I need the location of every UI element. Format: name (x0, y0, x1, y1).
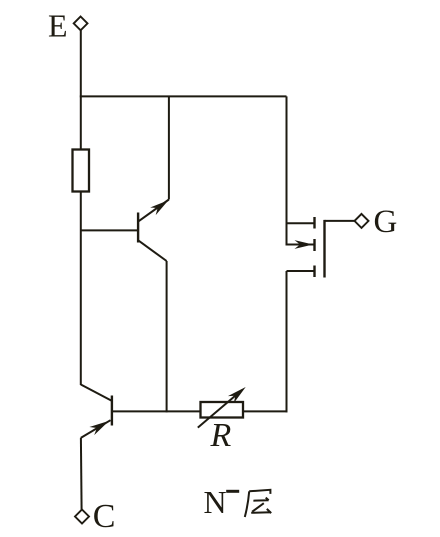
transistor Q2 base bar (111, 396, 113, 426)
transistor Q2 collector diagonal (81, 385, 112, 401)
MOSFET gate bar (323, 220, 325, 278)
svg-text:G: G (374, 204, 398, 240)
wire Q1 emitter vertical (166, 261, 168, 412)
MOSFET drain stub (287, 222, 315, 224)
resistor (left, vertical body) (73, 150, 90, 192)
svg-text:E: E (48, 7, 68, 43)
MOSFET source stub (287, 270, 315, 272)
MOSFET body arrow (295, 240, 314, 249)
transistor Q1 base bar (137, 213, 139, 243)
wire E top vertical (80, 30, 82, 149)
svg-text:C: C (93, 498, 116, 535)
MOSFET body stub (287, 244, 315, 246)
transistor Q1 base wire (81, 229, 138, 231)
wire middle branch vertical (top rail to Q1 collector) (168, 96, 170, 199)
wire bottom rail (112, 410, 288, 412)
MOSFET gate lead (325, 220, 355, 222)
transistor Q2 emitter diagonal (81, 420, 111, 438)
terminal C diamond (75, 510, 89, 524)
transistor Q2 arrow (89, 421, 109, 435)
MOSFET channel segment (bottom) (313, 266, 315, 278)
MOSFET channel segment (middle) (313, 239, 315, 251)
resistor R arrowhead (228, 387, 246, 403)
resistor R arrow line (198, 390, 242, 428)
label superscript minus (226, 490, 239, 493)
wire left vertical (resistor to lower transistor) (80, 192, 82, 386)
terminal E diamond (74, 17, 88, 31)
wire top horizontal rail (80, 95, 287, 97)
wire MOSFET drain vertical (286, 96, 288, 245)
svg-text:R: R (210, 417, 232, 454)
transistor Q1 arrow (150, 200, 168, 215)
transistor Q1 collector diagonal (139, 200, 169, 222)
terminal G diamond (355, 214, 369, 228)
svg-text:N: N (204, 484, 227, 520)
resistor R body (201, 402, 244, 418)
transistor Q1 emitter diagonal (139, 241, 167, 261)
wire right vertical (source to bottom rail) (286, 271, 288, 412)
wire C vertical (80, 438, 83, 510)
label CJK character ceng (layer), drawn as strokes (245, 490, 271, 517)
MOSFET channel segment (top) (313, 217, 315, 229)
